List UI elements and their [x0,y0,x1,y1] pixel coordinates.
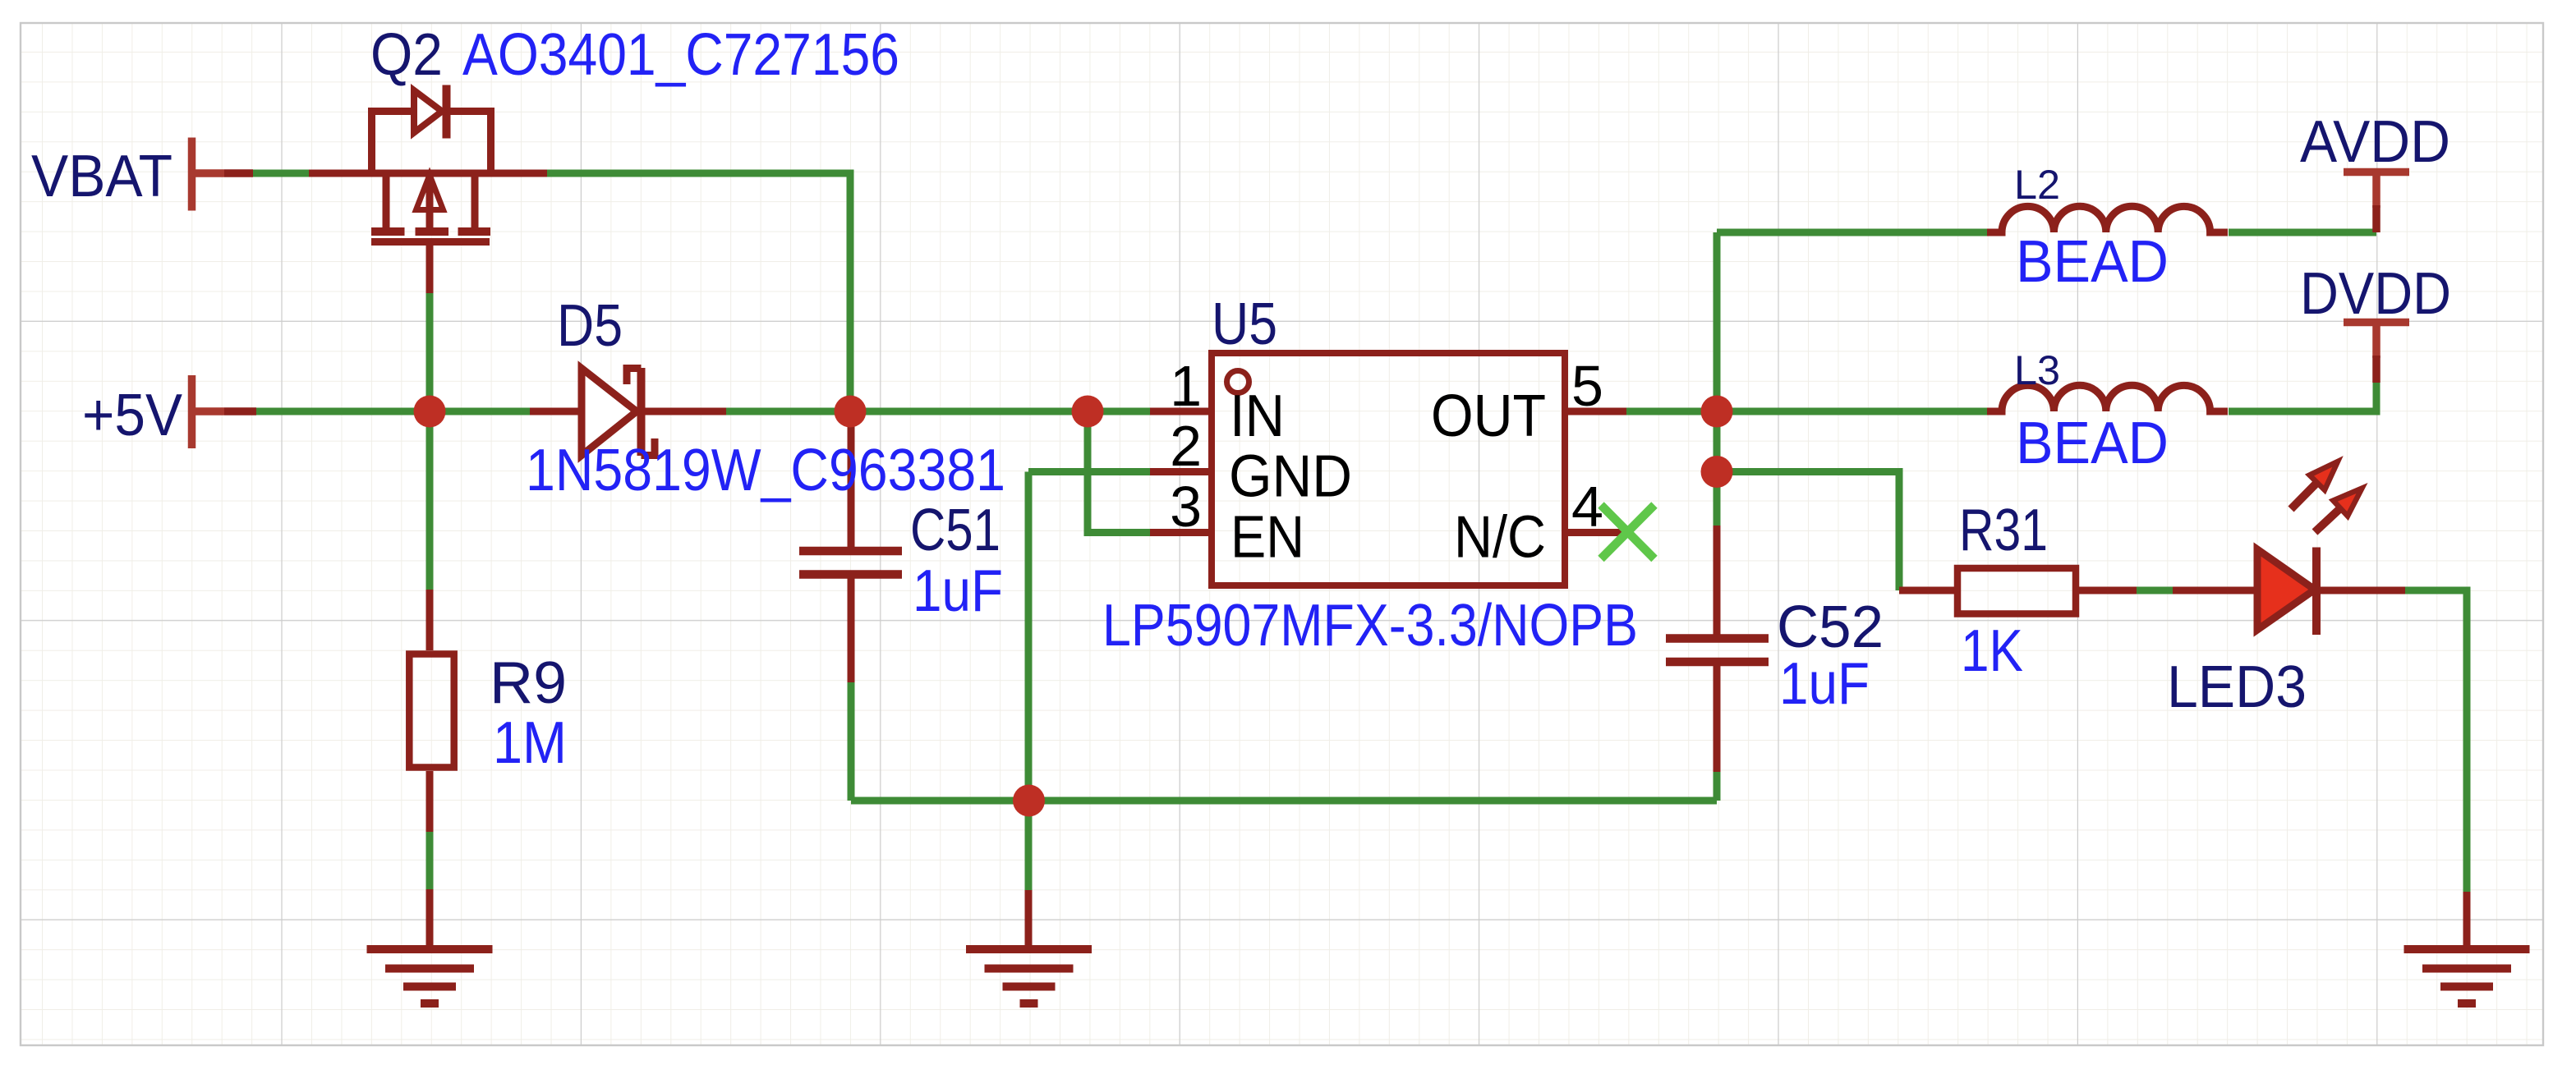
svg-text:LP5907MFX-3.3/NOPB: LP5907MFX-3.3/NOPB [1102,593,1638,659]
svg-text:C51: C51 [910,498,1000,563]
svg-text:+5V: +5V [82,383,182,448]
svg-text:3: 3 [1170,475,1202,539]
svg-text:BEAD: BEAD [2016,229,2169,295]
svg-text:1K: 1K [1961,618,2023,684]
svg-text:LED3: LED3 [2167,654,2307,720]
svg-text:L3: L3 [2014,347,2060,393]
svg-text:4: 4 [1571,475,1603,539]
svg-text:U5: U5 [1212,291,1277,357]
svg-text:Q2: Q2 [370,22,443,88]
svg-text:R9: R9 [490,650,567,716]
svg-text:EN: EN [1230,505,1304,571]
svg-text:IN: IN [1230,383,1285,449]
svg-text:VBAT: VBAT [31,144,172,209]
svg-text:N/C: N/C [1454,505,1546,571]
svg-text:1N5819W_C963381: 1N5819W_C963381 [526,438,1005,503]
svg-text:D5: D5 [557,293,623,359]
svg-text:1: 1 [1170,354,1202,418]
svg-text:AO3401_C727156: AO3401_C727156 [462,22,899,88]
svg-text:L2: L2 [2014,162,2060,208]
svg-text:1uF: 1uF [913,558,1003,624]
svg-text:OUT: OUT [1431,383,1546,449]
svg-text:1M: 1M [493,710,567,776]
svg-text:2: 2 [1170,414,1202,478]
svg-text:5: 5 [1571,354,1603,418]
svg-text:GND: GND [1229,444,1352,510]
svg-text:AVDD: AVDD [2300,109,2450,175]
svg-text:C52: C52 [1777,594,1884,660]
svg-text:1uF: 1uF [1779,651,1870,717]
svg-text:BEAD: BEAD [2016,411,2169,476]
svg-text:R31: R31 [1959,498,2048,563]
svg-text:DVDD: DVDD [2300,261,2451,327]
